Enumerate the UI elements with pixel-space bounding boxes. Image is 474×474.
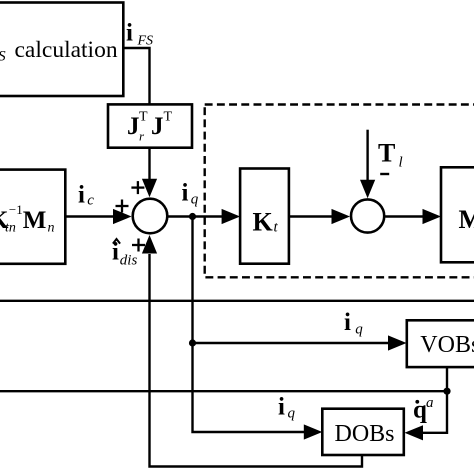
feedback line 1 (full width) bbox=[0, 300, 474, 302]
svg-text:J: J bbox=[151, 113, 164, 140]
label iq (DOBs input) bbox=[278, 394, 296, 422]
label Tl bbox=[378, 139, 403, 171]
svg-text:T: T bbox=[139, 110, 148, 125]
block iFS calculation (cut off at left) bbox=[0, 3, 123, 97]
svg-text:calculation: calculation bbox=[15, 37, 118, 63]
feedback line 2 (to VOBs junction) bbox=[0, 390, 447, 392]
svg-text:i: i bbox=[78, 182, 85, 209]
arrowhead into S1 top bbox=[142, 179, 157, 198]
wire iFS calc to Jr block bbox=[123, 48, 149, 104]
svg-text:FS: FS bbox=[137, 34, 154, 49]
wire Tl input into S2 bbox=[366, 130, 368, 183]
block Kt bbox=[240, 169, 289, 264]
summing node S1 bbox=[133, 199, 168, 234]
label iq (VOBs input) bbox=[344, 309, 363, 338]
label iq (after S1) bbox=[182, 180, 199, 208]
block VOBs (cut off at right) bbox=[407, 320, 474, 367]
block Ktn^-1 Mn (cut off at left) bbox=[0, 170, 65, 264]
label qdot^a bbox=[413, 395, 434, 424]
label ic bbox=[78, 182, 94, 209]
node VOBs output junction bbox=[443, 388, 450, 395]
svg-text:n: n bbox=[48, 221, 55, 236]
plus sign top input S1 bbox=[131, 181, 144, 194]
svg-text:DOBs: DOBs bbox=[335, 421, 395, 447]
wire Jr block to summing node S1 bbox=[148, 148, 150, 182]
svg-text:T: T bbox=[378, 139, 395, 168]
block DOBs bbox=[322, 409, 404, 455]
arrowhead iq into DOBs bbox=[304, 424, 323, 439]
svg-text:q: q bbox=[413, 397, 427, 424]
block M (cut off at right) bbox=[441, 167, 474, 262]
wire Ktn block to S1 with arrowhead bbox=[65, 215, 114, 217]
svg-text:i: i bbox=[126, 20, 133, 47]
wire Kt to summing node S2 bbox=[289, 215, 333, 217]
plus sign bottom input S1 bbox=[132, 239, 145, 252]
svg-text:q: q bbox=[288, 406, 296, 422]
svg-text:l: l bbox=[399, 155, 403, 171]
label i_dis (hat) bbox=[112, 239, 137, 269]
dashed plant boundary box bbox=[205, 105, 474, 278]
svg-text:a: a bbox=[426, 395, 434, 411]
svg-text:−1: −1 bbox=[9, 202, 23, 217]
block JrT JT bbox=[108, 104, 192, 147]
svg-text:c: c bbox=[87, 193, 94, 209]
wire iq branch to VOBs bbox=[193, 342, 390, 344]
label iFS bbox=[126, 20, 153, 49]
svg-text:dis: dis bbox=[120, 253, 138, 269]
svg-text:FS: FS bbox=[0, 49, 6, 65]
svg-text:M: M bbox=[23, 207, 47, 234]
wire iq vertical from junction down bbox=[193, 217, 305, 433]
svg-text:J: J bbox=[127, 113, 140, 140]
node iq junction bbox=[189, 213, 196, 220]
svg-text:i: i bbox=[344, 309, 351, 336]
wire S1 output to Kt with junction dot bbox=[168, 215, 223, 217]
svg-text:M: M bbox=[459, 205, 474, 234]
node branch to VOBs bbox=[189, 339, 196, 346]
svg-text:T: T bbox=[164, 110, 173, 125]
minus sign for Tl bbox=[380, 173, 389, 175]
summing node S2 bbox=[351, 199, 384, 232]
svg-text:VOBs: VOBs bbox=[420, 332, 474, 358]
svg-text:i: i bbox=[182, 180, 189, 207]
svg-text:q: q bbox=[355, 322, 363, 338]
svg-text:K: K bbox=[253, 208, 274, 237]
wire VOBs output down to line2 junction and DOBs bbox=[422, 368, 447, 433]
wire DOBs output feedback to S1 bottom bbox=[150, 254, 363, 467]
svg-text:i: i bbox=[278, 394, 285, 421]
svg-text:q: q bbox=[191, 192, 199, 208]
plus sign left input S1 bbox=[116, 200, 129, 213]
svg-text:tn: tn bbox=[5, 221, 16, 236]
wire S2 to M block bbox=[385, 215, 423, 217]
